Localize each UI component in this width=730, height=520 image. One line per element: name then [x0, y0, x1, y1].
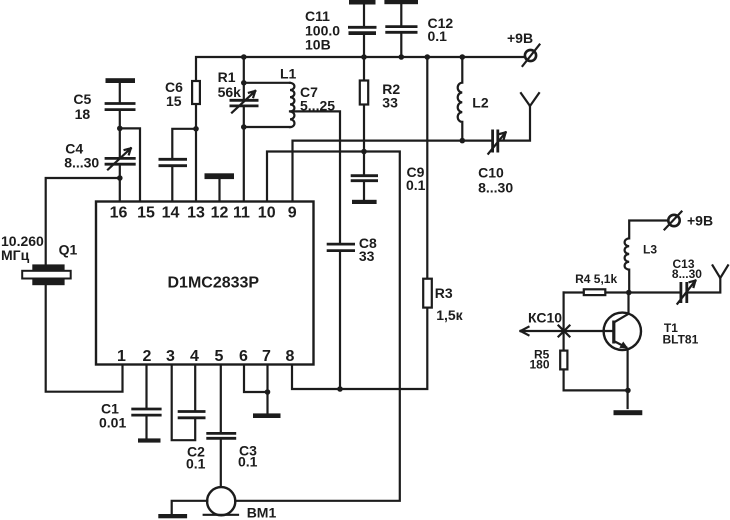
svg-text:+9B: +9B — [507, 30, 533, 46]
svg-text:2: 2 — [143, 348, 152, 365]
svg-text:1,5к: 1,5к — [436, 307, 463, 323]
svg-text:16: 16 — [110, 205, 128, 222]
svg-text:R4 5,1k: R4 5,1k — [575, 272, 617, 286]
svg-text:L1: L1 — [280, 66, 297, 82]
svg-text:10B: 10B — [305, 37, 331, 53]
svg-text:0.1: 0.1 — [238, 454, 258, 470]
svg-text:0.1: 0.1 — [428, 28, 448, 44]
svg-text:7: 7 — [262, 348, 271, 365]
svg-text:R1: R1 — [218, 69, 236, 85]
svg-text:4: 4 — [190, 348, 199, 365]
svg-text:МГц: МГц — [1, 247, 30, 263]
svg-text:8...30: 8...30 — [64, 155, 99, 171]
svg-text:15: 15 — [137, 205, 155, 222]
svg-text:+9B: +9B — [687, 213, 713, 229]
svg-text:0.1: 0.1 — [406, 177, 426, 193]
svg-text:0.1: 0.1 — [186, 456, 206, 472]
svg-text:56k: 56k — [218, 84, 242, 100]
svg-text:L2: L2 — [472, 95, 489, 111]
svg-text:9: 9 — [288, 205, 297, 222]
svg-text:1: 1 — [117, 348, 126, 365]
svg-text:5: 5 — [215, 348, 224, 365]
svg-text:BLT81: BLT81 — [663, 333, 699, 347]
svg-text:33: 33 — [382, 95, 398, 111]
svg-text:D1MC2833P: D1MC2833P — [168, 275, 260, 292]
svg-text:180: 180 — [530, 358, 550, 372]
svg-text:C5: C5 — [73, 91, 91, 107]
svg-text:0.01: 0.01 — [99, 415, 126, 431]
svg-text:18: 18 — [75, 106, 91, 122]
svg-text:8: 8 — [286, 348, 295, 365]
svg-text:C10: C10 — [478, 165, 504, 181]
svg-text:15: 15 — [166, 93, 182, 109]
svg-text:6: 6 — [239, 348, 248, 365]
svg-text:BM1: BM1 — [247, 505, 277, 520]
svg-text:Q1: Q1 — [59, 242, 78, 258]
svg-text:8...30: 8...30 — [478, 180, 513, 196]
svg-text:8...30: 8...30 — [672, 267, 702, 281]
svg-text:3: 3 — [166, 348, 175, 365]
svg-text:14: 14 — [162, 205, 180, 222]
svg-text:13: 13 — [187, 205, 205, 222]
svg-text:12: 12 — [211, 205, 229, 222]
svg-text:КС10: КС10 — [528, 310, 562, 326]
svg-text:33: 33 — [359, 248, 375, 264]
svg-text:R3: R3 — [435, 285, 453, 301]
svg-text:5...25: 5...25 — [300, 98, 335, 114]
svg-text:10: 10 — [258, 205, 276, 222]
svg-text:L3: L3 — [643, 243, 657, 257]
svg-text:11: 11 — [233, 205, 250, 222]
